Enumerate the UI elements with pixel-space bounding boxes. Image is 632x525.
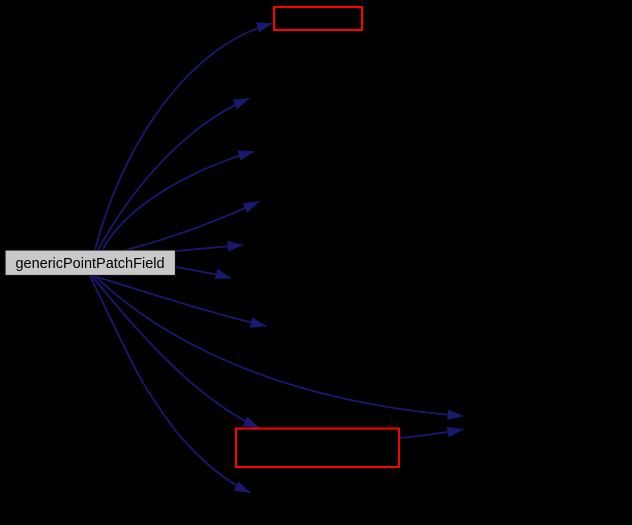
svg-text:genericPointPatchField: genericPointPatchField xyxy=(15,256,164,272)
